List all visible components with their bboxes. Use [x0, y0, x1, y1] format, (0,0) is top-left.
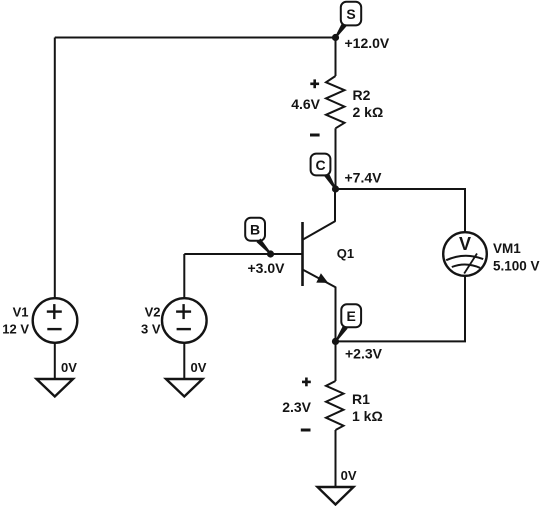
svg-text:V1: V1 — [13, 305, 29, 320]
svg-text:2 kΩ: 2 kΩ — [353, 104, 384, 120]
wire left vertical from top rail down to V1 — [54, 38, 56, 299]
svg-text:4.6V: 4.6V — [291, 96, 320, 112]
wire node C to voltmeter top — [336, 189, 466, 233]
ground symbol at bottom — [318, 487, 354, 505]
node E leader — [335, 326, 347, 342]
svg-text:0V: 0V — [191, 360, 207, 375]
svg-text:+12.0V: +12.0V — [345, 35, 390, 51]
svg-text:2.3V: 2.3V — [282, 399, 311, 415]
node C junction dot — [332, 185, 339, 192]
node B leader — [257, 239, 272, 255]
svg-text:R2: R2 — [353, 87, 371, 103]
node B label box — [245, 218, 265, 241]
wire R1 bottom to ground — [335, 430, 337, 487]
svg-text:+2.3V: +2.3V — [345, 345, 383, 361]
svg-text:E: E — [347, 308, 356, 324]
svg-text:Q1: Q1 — [337, 246, 354, 261]
R2 minus polarity mark — [310, 134, 320, 137]
ground symbol below V2 — [166, 379, 203, 397]
svg-text:0V: 0V — [341, 468, 357, 483]
wire V2 to ground — [183, 343, 185, 379]
node S label box — [341, 2, 361, 26]
R2 plus polarity mark — [310, 79, 319, 88]
node B junction dot — [267, 250, 274, 257]
svg-text:V: V — [459, 234, 471, 254]
wire V2 up to base level — [183, 254, 185, 298]
svg-text:0V: 0V — [61, 360, 77, 375]
node C label box — [311, 154, 331, 176]
resistor R1 — [326, 381, 344, 430]
node E junction dot — [332, 338, 339, 345]
wire R2 bottom to node C — [335, 128, 337, 189]
node S junction dot — [332, 34, 339, 41]
wire top rail from V1 to node S — [55, 37, 336, 39]
wire node E to R1 top — [335, 341, 337, 381]
node E label box — [341, 304, 361, 327]
svg-text:3 V: 3 V — [141, 322, 161, 337]
svg-text:+7.4V: +7.4V — [345, 170, 383, 186]
resistor R2 — [326, 76, 345, 128]
svg-text:R1: R1 — [352, 391, 370, 407]
voltage source V1 — [33, 298, 78, 343]
R1 minus polarity mark — [301, 429, 311, 432]
ground symbol below V1 — [37, 379, 74, 397]
voltage source V2 — [162, 298, 207, 343]
node S leader — [335, 23, 347, 38]
wire base rail from V2 corner to Q1 base — [184, 253, 302, 255]
svg-text:C: C — [315, 157, 325, 173]
transistor Q1 — [303, 221, 336, 287]
wire voltmeter bottom to node E — [336, 276, 466, 342]
svg-text:5.100 V: 5.100 V — [493, 259, 540, 274]
wire V1 to ground — [54, 343, 56, 379]
svg-text:V2: V2 — [145, 305, 161, 320]
svg-text:S: S — [346, 6, 355, 22]
node C leader — [324, 173, 336, 190]
svg-text:+3.0V: +3.0V — [248, 260, 286, 276]
svg-text:VM1: VM1 — [493, 241, 521, 256]
svg-text:B: B — [250, 222, 260, 238]
wire node C down to Q1 collector — [334, 189, 336, 222]
svg-text:1 kΩ: 1 kΩ — [352, 408, 383, 424]
svg-text:12 V: 12 V — [2, 322, 29, 337]
voltmeter VM1 — [443, 232, 487, 276]
R1 plus polarity mark — [302, 378, 311, 387]
wire node S to R2 top — [335, 38, 337, 77]
wire Q1 emitter down to node E — [335, 287, 337, 342]
